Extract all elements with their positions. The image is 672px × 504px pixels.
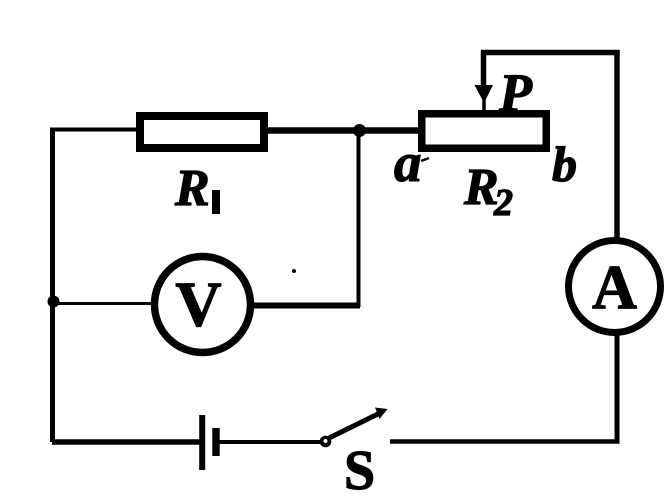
wire: right rail upper segment xyxy=(614,50,620,240)
battery cell xyxy=(202,415,216,470)
wire: battery to switch xyxy=(216,440,322,444)
svg-text:2: 2 xyxy=(493,182,513,224)
wire: switch to right rail xyxy=(390,439,620,444)
rheostat R2 xyxy=(422,114,547,149)
svg-text:b: b xyxy=(552,136,577,192)
wire: middle vertical branch down to voltmeter xyxy=(357,131,361,307)
node junction on wire (above voltmeter branch) xyxy=(353,124,366,137)
resistor R1 xyxy=(140,116,264,148)
wire: top horizontal xyxy=(481,50,620,56)
wire: voltmeter left lead xyxy=(52,302,156,305)
svg-text:A: A xyxy=(592,254,637,322)
svg-text:R: R xyxy=(174,160,210,217)
node junction on left rail xyxy=(48,296,60,308)
svg-text:V: V xyxy=(175,269,221,340)
label R1 xyxy=(174,160,220,217)
wiper arrow into R2 xyxy=(475,51,494,112)
wire: bottom rail left segment xyxy=(52,439,201,445)
wire: top-left horizontal to R1 xyxy=(50,128,142,132)
wire: right rail lower segment xyxy=(615,334,620,442)
stray scan speck near voltmeter xyxy=(292,269,296,273)
ammeter A xyxy=(569,241,661,333)
wire: left vertical rail xyxy=(50,129,55,442)
stray tick mark beside label a xyxy=(421,158,429,161)
label R2 xyxy=(463,159,513,224)
wire: voltmeter right lead xyxy=(249,303,360,309)
svg-text:S: S xyxy=(344,440,375,502)
switch S xyxy=(320,408,388,448)
voltmeter V xyxy=(155,257,251,353)
wire: R1 to R2 xyxy=(262,127,422,134)
svg-text:a: a xyxy=(394,132,422,193)
